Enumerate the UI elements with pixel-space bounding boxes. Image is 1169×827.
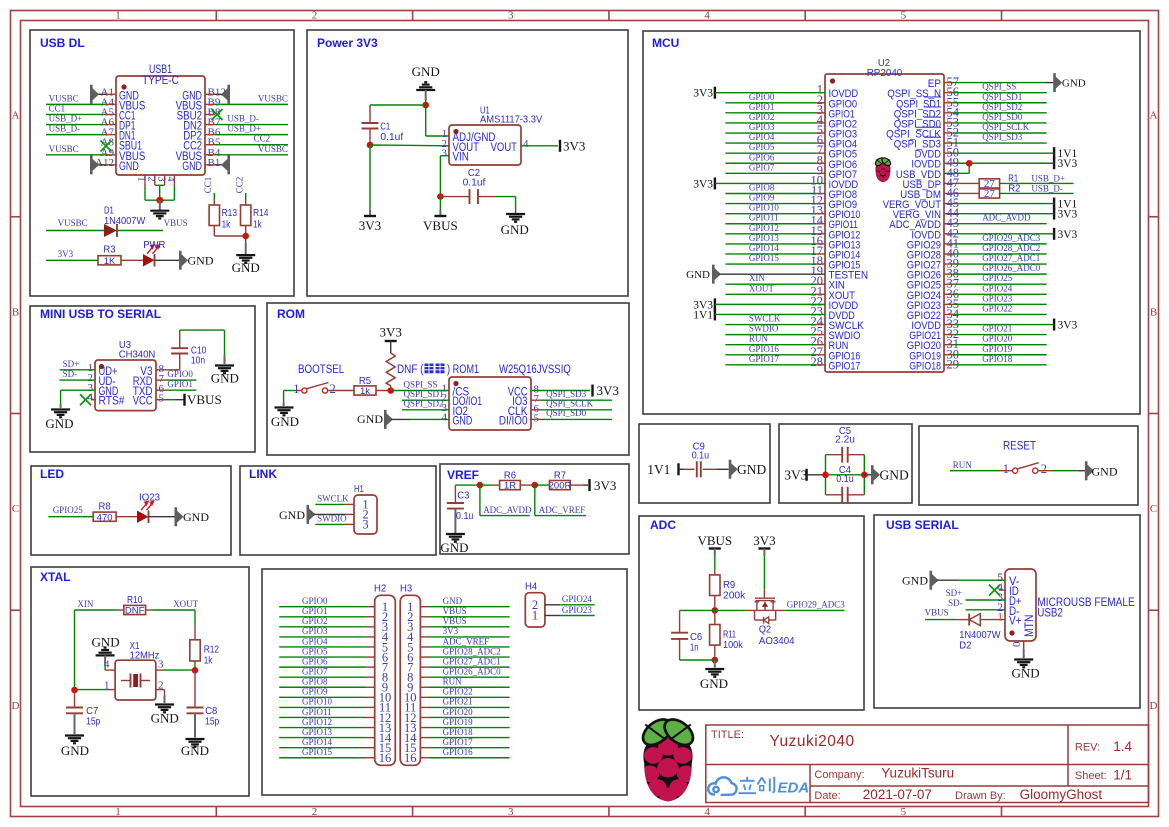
svg-text:SWDIO: SWDIO [749, 324, 779, 334]
svg-text:SD-: SD- [63, 369, 78, 379]
svg-text:QSPI_SD1: QSPI_SD1 [982, 92, 1022, 102]
svg-text:C: C [1150, 503, 1157, 515]
svg-text:5: 5 [901, 806, 907, 818]
svg-text:USB_D+: USB_D+ [49, 114, 83, 124]
svg-text:QSPI_SD3: QSPI_SD3 [546, 389, 587, 399]
svg-text:1: 1 [293, 382, 299, 396]
svg-text:GPIO21: GPIO21 [443, 697, 473, 707]
svg-text:RP2040: RP2040 [867, 67, 903, 79]
svg-text:GND: GND [188, 253, 214, 267]
svg-text:MTN: MTN [1024, 615, 1036, 638]
svg-text:GPIO13: GPIO13 [749, 233, 780, 243]
svg-text:VOUT: VOUT [491, 142, 517, 154]
svg-text:MCU: MCU [652, 36, 679, 50]
svg-text:GND: GND [181, 743, 209, 758]
svg-text:VIN: VIN [453, 152, 469, 164]
svg-text:200k: 200k [723, 589, 746, 601]
svg-text:USB_D-: USB_D- [49, 124, 81, 134]
svg-text:QSPI_SCLK: QSPI_SCLK [982, 122, 1030, 132]
svg-text:GND: GND [501, 222, 529, 237]
svg-text:USB_D-: USB_D- [1031, 183, 1063, 193]
svg-text:1: 1 [136, 176, 147, 181]
svg-text:VBUS: VBUS [164, 218, 188, 228]
svg-text:1n: 1n [690, 642, 699, 654]
svg-text:GPIO11: GPIO11 [302, 707, 332, 717]
svg-text:VUSBC: VUSBC [58, 218, 88, 228]
svg-text:GPIO5: GPIO5 [302, 646, 328, 656]
svg-text:GND: GND [686, 269, 710, 281]
svg-text:5: 5 [534, 412, 540, 424]
svg-text:GND: GND [211, 371, 239, 386]
svg-text:LINK: LINK [249, 467, 277, 481]
svg-text:DNF: DNF [125, 606, 145, 617]
svg-text:GPIO20: GPIO20 [443, 707, 474, 717]
svg-text:GPIO6: GPIO6 [302, 656, 328, 666]
svg-text:H4: H4 [525, 581, 537, 593]
svg-text:YuzukiTsuru: YuzukiTsuru [881, 766, 954, 781]
svg-text:AMS1117-3.3V: AMS1117-3.3V [480, 114, 542, 126]
svg-text:BOOTSEL: BOOTSEL [298, 364, 345, 376]
svg-text:GND: GND [119, 161, 139, 173]
svg-text:GPIO14: GPIO14 [749, 243, 780, 253]
svg-text:GPIO24: GPIO24 [982, 283, 1013, 293]
svg-text:3V3: 3V3 [58, 249, 74, 259]
svg-text:TYPE-C: TYPE-C [142, 75, 179, 87]
svg-text:3V3: 3V3 [359, 218, 381, 233]
svg-text:W25Q16JVSSIQ: W25Q16JVSSIQ [499, 364, 571, 376]
svg-text:GPIO11: GPIO11 [749, 213, 779, 223]
svg-text:USB_D+: USB_D+ [227, 124, 261, 134]
svg-text:D: D [12, 700, 20, 712]
svg-text:GND: GND [1012, 666, 1040, 681]
svg-text:GPIO16: GPIO16 [443, 747, 474, 757]
svg-text:VUSBC: VUSBC [49, 93, 79, 103]
svg-text:0.1u: 0.1u [692, 449, 710, 461]
svg-text:XOUT: XOUT [173, 599, 198, 609]
svg-text:Date:: Date: [814, 790, 840, 802]
svg-text:GPIO2: GPIO2 [302, 616, 328, 626]
svg-text:28: 28 [811, 355, 824, 369]
svg-text:3V3: 3V3 [1058, 229, 1078, 241]
svg-text:GPIO0: GPIO0 [302, 596, 328, 606]
svg-text:GloomyGhost: GloomyGhost [1020, 787, 1103, 802]
svg-text:D: D [1150, 700, 1158, 712]
svg-text:QSPI_SCLK: QSPI_SCLK [546, 399, 594, 409]
svg-text:USB DL: USB DL [40, 36, 85, 50]
svg-text:C: C [12, 503, 19, 515]
svg-text:3: 3 [158, 659, 164, 671]
svg-text:3: 3 [442, 148, 448, 160]
svg-text:GPIO18: GPIO18 [909, 360, 941, 372]
svg-text:3: 3 [508, 806, 514, 818]
svg-text:GND: GND [880, 468, 909, 483]
svg-text:B1: B1 [208, 157, 221, 169]
svg-text:C3: C3 [457, 489, 469, 501]
svg-text:GPIO22: GPIO22 [982, 303, 1012, 313]
svg-text:CH340N: CH340N [119, 349, 156, 361]
svg-text:SWDIO: SWDIO [317, 514, 347, 524]
svg-text:3V3: 3V3 [1058, 320, 1078, 332]
svg-text:3V3: 3V3 [693, 88, 713, 100]
svg-text:REV:: REV: [1075, 742, 1100, 754]
svg-text:3V3: 3V3 [563, 138, 585, 153]
svg-text:Company:: Company: [814, 769, 864, 781]
svg-text:5: 5 [901, 10, 907, 22]
svg-text:GPIO7: GPIO7 [749, 162, 775, 172]
svg-text:) ROM1: ) ROM1 [447, 364, 479, 376]
svg-text:XOUT: XOUT [749, 283, 774, 293]
svg-text:0.1uf: 0.1uf [380, 131, 403, 143]
svg-text:VUSBC: VUSBC [258, 144, 288, 154]
svg-text:4: 4 [704, 806, 710, 818]
svg-text:GPIO10: GPIO10 [302, 697, 333, 707]
svg-text:CC2: CC2 [235, 177, 245, 194]
svg-text:4: 4 [704, 10, 710, 22]
svg-text:Sheet:: Sheet: [1075, 770, 1107, 782]
svg-text:GPIO29_ADC3: GPIO29_ADC3 [787, 600, 846, 610]
svg-text:VBUS: VBUS [925, 608, 949, 618]
svg-text:2021-07-07: 2021-07-07 [863, 787, 932, 802]
svg-text:GND: GND [271, 414, 299, 429]
svg-text:R8: R8 [99, 500, 111, 512]
svg-text:4: 4 [165, 176, 176, 182]
svg-text:VBUS: VBUS [423, 218, 458, 233]
svg-text:VBUS: VBUS [443, 616, 467, 626]
svg-text:GND: GND [232, 260, 260, 275]
svg-text:H1: H1 [354, 483, 364, 495]
svg-text:GND: GND [182, 161, 202, 173]
svg-text:GPIO26_ADC0: GPIO26_ADC0 [982, 263, 1041, 273]
svg-text:3V3: 3V3 [753, 533, 775, 548]
svg-text:GPIO24: GPIO24 [562, 594, 593, 604]
svg-text:GPIO18: GPIO18 [443, 727, 474, 737]
svg-text:470: 470 [97, 512, 113, 523]
svg-text:GND: GND [737, 462, 766, 477]
svg-text:2: 2 [312, 10, 318, 22]
svg-text:16: 16 [379, 751, 392, 765]
svg-text:GPIO0: GPIO0 [167, 369, 193, 379]
svg-text:EDA: EDA [778, 780, 810, 797]
svg-text:AO3404: AO3404 [759, 635, 795, 647]
svg-text:1: 1 [115, 10, 121, 22]
svg-text:1: 1 [1003, 462, 1009, 476]
svg-text:1k: 1k [253, 219, 262, 231]
svg-text:0.1u: 0.1u [836, 473, 854, 485]
svg-text:ROM: ROM [277, 307, 305, 321]
svg-text:GPIO17: GPIO17 [829, 360, 861, 372]
svg-text:QSPI_SD0: QSPI_SD0 [546, 408, 587, 418]
svg-text:SD+: SD+ [946, 588, 963, 598]
svg-text:USB_D-: USB_D- [227, 114, 259, 124]
svg-text:XIN: XIN [77, 599, 93, 609]
svg-text:3: 3 [362, 518, 368, 532]
svg-text:ADC: ADC [650, 518, 676, 532]
svg-text:XIN: XIN [749, 273, 765, 283]
svg-text:GND: GND [61, 743, 89, 758]
svg-text:GND: GND [1092, 464, 1118, 478]
svg-text:QSPI_SD3: QSPI_SD3 [982, 132, 1023, 142]
svg-text:XTAL: XTAL [40, 570, 70, 584]
svg-text:15p: 15p [205, 716, 219, 728]
svg-text:GND: GND [45, 416, 73, 431]
svg-text:QSPI_SD2: QSPI_SD2 [404, 399, 444, 409]
svg-text:GPIO1: GPIO1 [167, 379, 193, 389]
svg-text:RTS#: RTS# [99, 396, 126, 408]
svg-text:RUN: RUN [443, 677, 463, 687]
svg-text:10n: 10n [191, 355, 205, 367]
svg-text:A: A [12, 110, 20, 122]
svg-text:27: 27 [984, 188, 996, 200]
svg-text:1K: 1K [104, 256, 116, 267]
svg-text:GPIO8: GPIO8 [302, 677, 328, 687]
svg-text:GPIO9: GPIO9 [302, 687, 328, 697]
svg-text:USB2: USB2 [1037, 608, 1062, 620]
svg-text:GPIO21: GPIO21 [982, 324, 1012, 334]
svg-text:0: 0 [1011, 641, 1023, 647]
svg-text:QSPI_SD2: QSPI_SD2 [982, 102, 1022, 112]
svg-text:VREF: VREF [447, 468, 479, 482]
svg-text:12MHz: 12MHz [130, 650, 160, 662]
svg-text:GPIO14: GPIO14 [302, 737, 333, 747]
svg-text:VBUS: VBUS [443, 606, 467, 616]
svg-text:1: 1 [997, 612, 1003, 624]
svg-text:2: 2 [312, 806, 318, 818]
svg-text:1k: 1k [222, 219, 231, 231]
svg-text:GPIO29_ADC3: GPIO29_ADC3 [982, 233, 1041, 243]
svg-text:2: 2 [146, 176, 157, 181]
svg-text:ADC_VREF: ADC_VREF [443, 636, 490, 646]
svg-text:GPIO10: GPIO10 [749, 203, 780, 213]
svg-text:SD-: SD- [948, 598, 963, 608]
svg-text:SWCLK: SWCLK [749, 314, 781, 324]
svg-text:Q2: Q2 [759, 623, 771, 635]
svg-text:H2: H2 [374, 583, 386, 595]
svg-text:RESET: RESET [1003, 441, 1036, 453]
svg-text:ADC_AVDD: ADC_AVDD [483, 505, 532, 515]
svg-text:GPIO19: GPIO19 [982, 344, 1013, 354]
svg-text:R13: R13 [222, 207, 238, 219]
svg-text:GND: GND [279, 508, 305, 522]
svg-text:GPIO9: GPIO9 [749, 193, 775, 203]
svg-text:CC1: CC1 [49, 103, 66, 113]
svg-text:GND: GND [357, 412, 383, 426]
svg-text:3V3: 3V3 [443, 626, 459, 636]
svg-text:GND: GND [453, 415, 473, 427]
svg-text:GND: GND [1062, 78, 1086, 90]
svg-text:GND: GND [700, 676, 728, 691]
svg-text:GPIO12: GPIO12 [749, 223, 779, 233]
svg-text:D2: D2 [959, 640, 971, 652]
svg-text:USB SERIAL: USB SERIAL [886, 518, 959, 532]
svg-text:ADC_AVDD: ADC_AVDD [982, 213, 1031, 223]
svg-text:GPIO17: GPIO17 [443, 737, 474, 747]
svg-text:GPIO5: GPIO5 [749, 142, 775, 152]
svg-text:GND: GND [412, 64, 440, 79]
svg-text:5: 5 [159, 393, 165, 405]
svg-text:0.1uf: 0.1uf [463, 177, 486, 189]
svg-text:Yuzuki2040: Yuzuki2040 [770, 733, 855, 750]
svg-text:1N4007W: 1N4007W [104, 215, 145, 227]
svg-text:GPIO18: GPIO18 [982, 354, 1013, 364]
svg-text:GPIO26_ADC0: GPIO26_ADC0 [443, 666, 502, 676]
svg-text:QSPI_SD0: QSPI_SD0 [982, 112, 1023, 122]
svg-text:GPIO17: GPIO17 [749, 354, 780, 364]
svg-text:VUSBC: VUSBC [258, 93, 288, 103]
svg-text:GPIO3: GPIO3 [749, 122, 775, 132]
svg-text:R14: R14 [253, 207, 269, 219]
svg-text:QSPI_SS: QSPI_SS [982, 82, 1016, 92]
svg-text:2: 2 [330, 382, 336, 396]
svg-text:3V3: 3V3 [380, 325, 402, 340]
svg-text:DNF (: DNF ( [397, 364, 424, 376]
svg-text:QSPI_SS: QSPI_SS [404, 380, 438, 390]
svg-text:R10: R10 [127, 594, 143, 606]
svg-text:GPIO15: GPIO15 [749, 253, 780, 263]
svg-text:A: A [1150, 110, 1158, 122]
svg-text:16: 16 [404, 751, 417, 765]
svg-text:GPIO1: GPIO1 [749, 102, 775, 112]
svg-text:CC1: CC1 [203, 177, 213, 194]
svg-text:IO23: IO23 [139, 492, 160, 504]
svg-text:1: 1 [532, 609, 538, 623]
svg-text:SD+: SD+ [63, 359, 80, 369]
svg-text:3V3: 3V3 [594, 478, 616, 493]
svg-text:GPIO12: GPIO12 [302, 717, 332, 727]
svg-text:R3: R3 [103, 244, 115, 256]
svg-text:DI/IO0: DI/IO0 [499, 415, 528, 427]
svg-text:VUSBC: VUSBC [49, 144, 79, 154]
svg-text:GPIO28_ADC2: GPIO28_ADC2 [982, 243, 1040, 253]
svg-text:GND: GND [902, 574, 928, 588]
svg-text:LED: LED [40, 467, 64, 481]
svg-text:3V3: 3V3 [1058, 209, 1078, 221]
svg-text:GPIO25: GPIO25 [53, 505, 84, 515]
svg-text:RUN: RUN [953, 460, 973, 470]
svg-text:GPIO27_ADC1: GPIO27_ADC1 [443, 656, 501, 666]
svg-text:3: 3 [155, 176, 166, 181]
svg-text:100k: 100k [723, 639, 743, 651]
svg-text:Drawn By:: Drawn By: [955, 790, 1006, 802]
svg-text:2: 2 [1041, 462, 1047, 476]
svg-text:GPIO22: GPIO22 [443, 687, 473, 697]
svg-text:GND: GND [440, 540, 468, 555]
svg-text:CC2: CC2 [254, 134, 271, 144]
svg-text:GPIO20: GPIO20 [982, 334, 1013, 344]
svg-text:RUN: RUN [749, 334, 769, 344]
svg-text:Power 3V3: Power 3V3 [317, 36, 378, 50]
svg-text:SWCLK: SWCLK [317, 494, 349, 504]
svg-text:QSPI_SD1: QSPI_SD1 [404, 389, 444, 399]
svg-text:GPIO0: GPIO0 [749, 92, 775, 102]
svg-text:USB_D+: USB_D+ [1031, 173, 1065, 183]
svg-text:A12: A12 [95, 157, 114, 169]
svg-text:4: 4 [442, 411, 448, 423]
svg-text:GPIO6: GPIO6 [749, 152, 775, 162]
svg-text:1R: 1R [504, 481, 516, 492]
svg-text:1V1: 1V1 [693, 309, 713, 321]
svg-text:TITLE:: TITLE: [711, 729, 744, 741]
svg-text:1/1: 1/1 [1113, 768, 1132, 783]
svg-text:GPIO1: GPIO1 [302, 606, 328, 616]
svg-text:V+: V+ [1009, 616, 1022, 628]
svg-text:ADC_VREF: ADC_VREF [539, 505, 586, 515]
svg-text:3: 3 [508, 10, 514, 22]
svg-text:VCC: VCC [133, 396, 153, 408]
svg-text:3V3: 3V3 [784, 468, 807, 483]
svg-text:VBUS: VBUS [187, 392, 222, 407]
svg-text:VBUS: VBUS [697, 533, 732, 548]
svg-text:15p: 15p [86, 716, 100, 728]
svg-text:2.2u: 2.2u [835, 433, 855, 445]
svg-text:B: B [1150, 306, 1157, 318]
svg-text:GPIO3: GPIO3 [302, 626, 328, 636]
svg-text:GND: GND [151, 711, 179, 726]
svg-text:1V1: 1V1 [647, 462, 670, 477]
svg-text:3V3: 3V3 [1058, 158, 1078, 170]
svg-text:MINI USB TO SERIAL: MINI USB TO SERIAL [40, 307, 161, 321]
svg-text:GPIO13: GPIO13 [302, 727, 333, 737]
svg-text:PWR: PWR [143, 239, 166, 251]
svg-text:GPIO25: GPIO25 [982, 273, 1013, 283]
svg-text:4: 4 [523, 138, 529, 150]
svg-text:GPIO7: GPIO7 [302, 666, 328, 676]
svg-text:1k: 1k [360, 386, 370, 397]
svg-text:GPIO4: GPIO4 [749, 132, 775, 142]
svg-text:GND: GND [443, 596, 463, 606]
svg-text:GPIO4: GPIO4 [302, 636, 328, 646]
svg-text:GPIO19: GPIO19 [443, 717, 474, 727]
svg-text:GPIO27_ADC1: GPIO27_ADC1 [982, 253, 1040, 263]
svg-text:0.1u: 0.1u [456, 510, 474, 522]
svg-text:1k: 1k [204, 655, 213, 667]
svg-text:GPIO8: GPIO8 [749, 183, 775, 193]
svg-text:H3: H3 [400, 583, 412, 595]
svg-text:3V3: 3V3 [597, 383, 619, 398]
svg-text:B: B [12, 306, 19, 318]
svg-text:GPIO23: GPIO23 [982, 293, 1013, 303]
svg-text:GPIO23: GPIO23 [562, 605, 593, 615]
svg-text:GPIO16: GPIO16 [749, 344, 780, 354]
svg-text:R2: R2 [1008, 182, 1020, 194]
svg-text:200R: 200R [549, 481, 572, 492]
svg-text:GPIO28_ADC2: GPIO28_ADC2 [443, 646, 501, 656]
svg-text:1: 1 [115, 806, 121, 818]
svg-text:GND: GND [183, 510, 209, 524]
svg-text:GPIO15: GPIO15 [302, 747, 333, 757]
svg-text:3V3: 3V3 [693, 178, 713, 190]
svg-text:GPIO2: GPIO2 [749, 112, 775, 122]
svg-text:1.4: 1.4 [1113, 739, 1132, 754]
